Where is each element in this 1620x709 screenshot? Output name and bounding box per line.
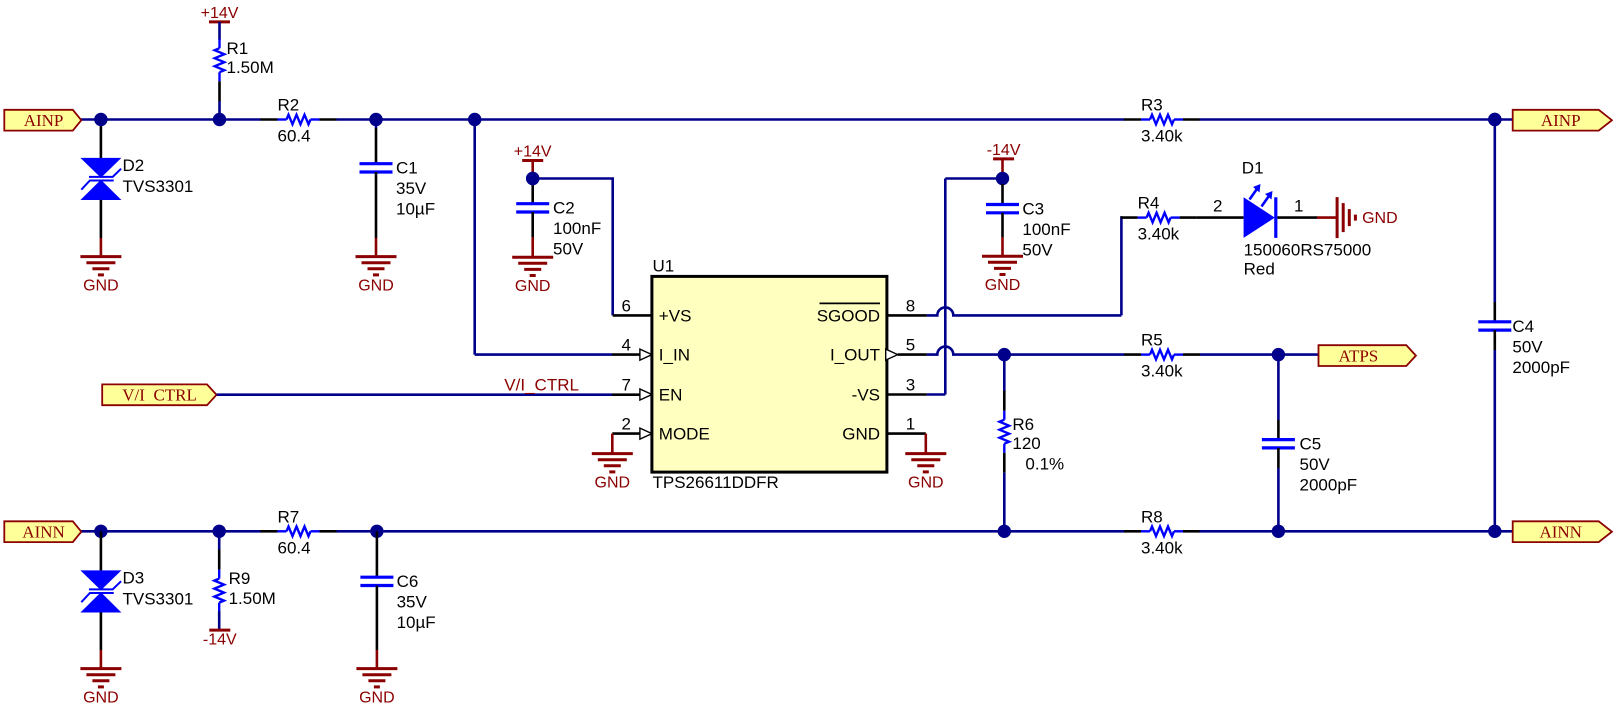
svg-text:GND: GND (83, 278, 119, 295)
svg-text:TVS3301: TVS3301 (123, 590, 194, 609)
svg-text:I_OUT: I_OUT (830, 346, 880, 365)
svg-text:V/I_CTRL: V/I_CTRL (504, 376, 579, 395)
svg-text:GND: GND (359, 690, 395, 707)
svg-text:3.40k: 3.40k (1141, 362, 1183, 381)
svg-text:10µF: 10µF (397, 613, 436, 632)
svg-text:C3: C3 (1022, 200, 1044, 219)
svg-text:D2: D2 (123, 156, 145, 175)
svg-text:3.40k: 3.40k (1138, 225, 1180, 244)
svg-text:-VS: -VS (852, 386, 880, 405)
svg-text:5: 5 (906, 336, 915, 355)
svg-text:AINP: AINP (1541, 111, 1581, 130)
svg-text:R5: R5 (1141, 331, 1163, 350)
svg-text:GND: GND (595, 475, 631, 492)
svg-text:2: 2 (622, 415, 631, 434)
svg-text:R8: R8 (1141, 507, 1163, 526)
svg-text:50V: 50V (1512, 337, 1543, 356)
svg-text:3.40k: 3.40k (1141, 538, 1183, 557)
svg-text:R2: R2 (278, 96, 300, 115)
svg-text:AINN: AINN (1539, 523, 1582, 542)
svg-text:50V: 50V (1300, 455, 1331, 474)
svg-text:R1: R1 (227, 39, 249, 58)
svg-text:2: 2 (1213, 197, 1222, 216)
svg-text:GND: GND (908, 475, 944, 492)
svg-text:R3: R3 (1141, 96, 1163, 115)
svg-text:C1: C1 (396, 159, 418, 178)
svg-text:+VS: +VS (659, 306, 692, 325)
svg-text:4: 4 (622, 336, 631, 355)
svg-text:3.40k: 3.40k (1141, 127, 1183, 146)
svg-text:60.4: 60.4 (278, 127, 311, 146)
svg-text:U1: U1 (653, 257, 675, 276)
svg-text:+14V: +14V (514, 144, 552, 161)
svg-text:-14V: -14V (987, 142, 1021, 159)
svg-text:50V: 50V (1022, 241, 1053, 260)
svg-text:C4: C4 (1512, 317, 1534, 336)
svg-text:C6: C6 (397, 572, 419, 591)
svg-text:35V: 35V (396, 179, 427, 198)
svg-text:V/I CTRL: V/I CTRL (122, 386, 197, 405)
svg-text:35V: 35V (397, 593, 428, 612)
svg-text:50V: 50V (553, 240, 584, 259)
svg-text:100nF: 100nF (1022, 220, 1070, 239)
svg-text:GND: GND (842, 425, 880, 444)
svg-text:120: 120 (1012, 434, 1040, 453)
svg-text:7: 7 (622, 376, 631, 395)
svg-text:EN: EN (659, 386, 683, 405)
svg-text:3: 3 (906, 376, 915, 395)
svg-text:SGOOD: SGOOD (817, 306, 880, 325)
svg-text:+14V: +14V (201, 5, 239, 22)
svg-text:I_IN: I_IN (659, 346, 690, 365)
svg-text:TPS26611DDFR: TPS26611DDFR (653, 473, 779, 492)
svg-text:GND: GND (985, 277, 1021, 294)
svg-text:100nF: 100nF (553, 219, 601, 238)
svg-text:AINP: AINP (24, 111, 64, 130)
svg-text:6: 6 (622, 296, 631, 315)
svg-text:-14V: -14V (203, 632, 237, 649)
svg-text:1: 1 (906, 415, 915, 434)
svg-text:D3: D3 (123, 569, 145, 588)
svg-text:60.4: 60.4 (278, 538, 311, 557)
svg-text:R9: R9 (229, 569, 251, 588)
svg-text:GND: GND (83, 690, 119, 707)
svg-text:R6: R6 (1012, 415, 1034, 434)
svg-text:0.1%: 0.1% (1025, 455, 1064, 474)
svg-text:C2: C2 (553, 199, 575, 218)
svg-text:TVS3301: TVS3301 (123, 177, 194, 196)
svg-text:10µF: 10µF (396, 200, 435, 219)
svg-text:1.50M: 1.50M (227, 58, 274, 77)
svg-text:ATPS: ATPS (1339, 346, 1379, 365)
svg-text:150060RS75000: 150060RS75000 (1244, 240, 1372, 259)
svg-text:8: 8 (906, 296, 915, 315)
svg-text:R4: R4 (1138, 194, 1160, 213)
svg-text:2000pF: 2000pF (1512, 358, 1570, 377)
svg-text:AINN: AINN (22, 523, 65, 542)
svg-text:MODE: MODE (659, 425, 710, 444)
svg-text:GND: GND (515, 278, 551, 295)
svg-text:R7: R7 (278, 507, 300, 526)
svg-text:D1: D1 (1242, 159, 1264, 178)
svg-text:GND: GND (1362, 210, 1398, 227)
svg-text:C5: C5 (1300, 435, 1322, 454)
svg-text:GND: GND (358, 278, 394, 295)
svg-text:1: 1 (1294, 197, 1303, 216)
svg-text:Red: Red (1244, 260, 1275, 279)
svg-text:1.50M: 1.50M (229, 589, 276, 608)
svg-text:2000pF: 2000pF (1300, 476, 1358, 495)
